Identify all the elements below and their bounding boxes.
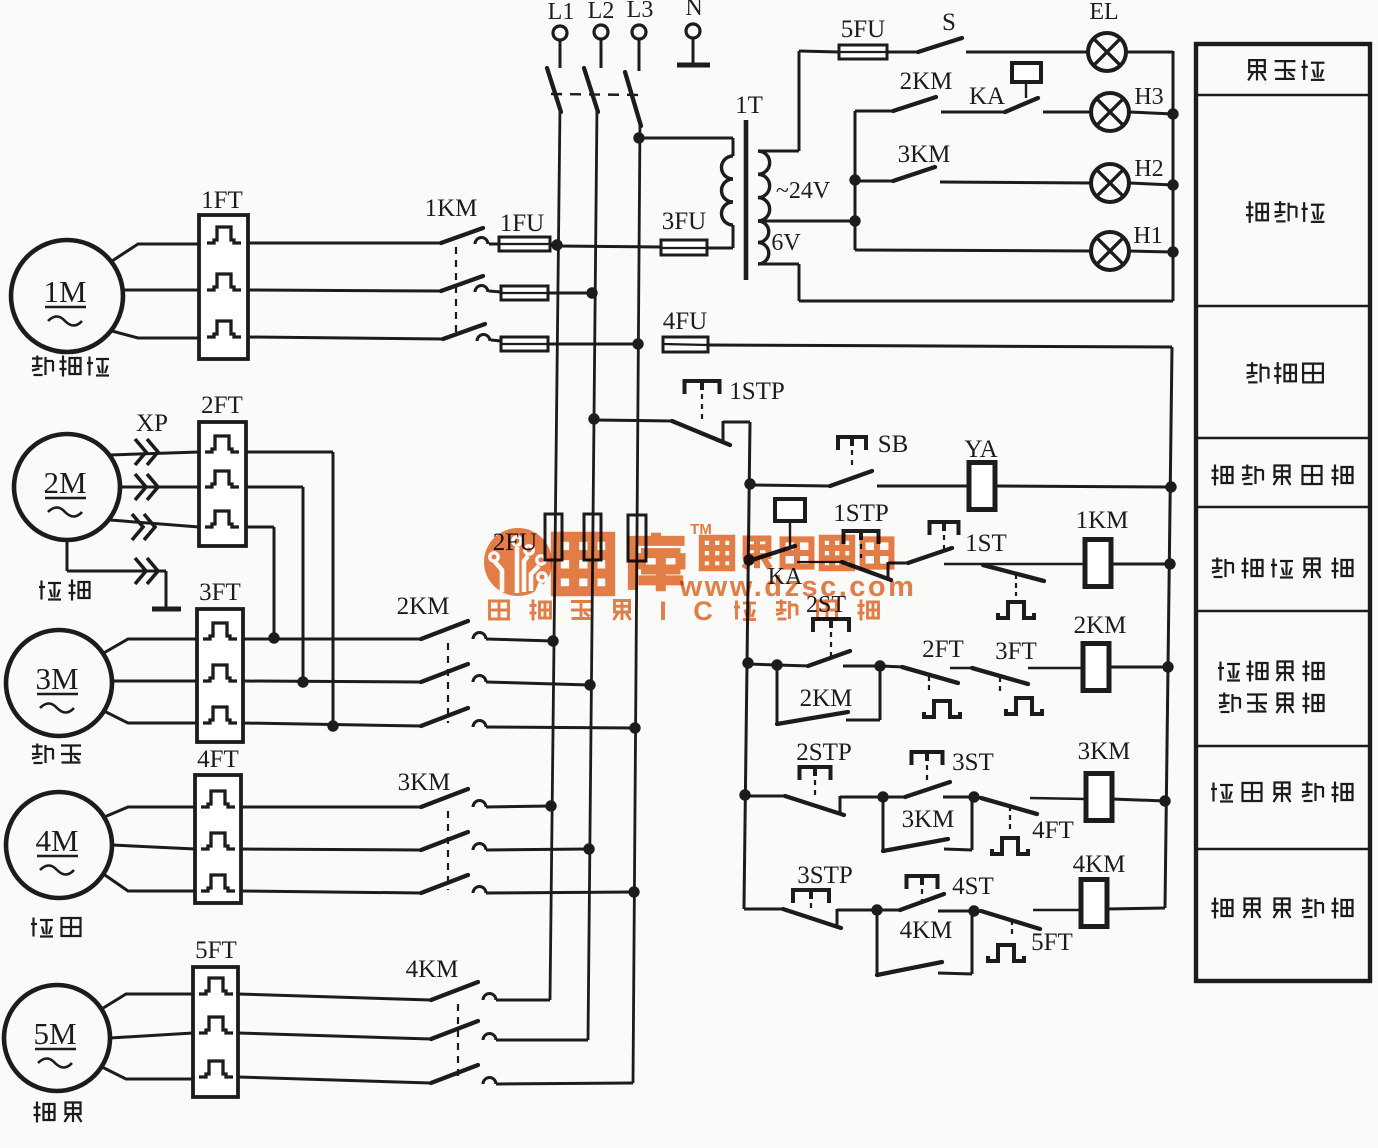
legend 推料电磁铁 (1212, 465, 1353, 486)
coil 4KM (1073, 851, 1165, 927)
svg-text:1T: 1T (735, 92, 763, 119)
node 1KM right (1164, 558, 1175, 569)
motor 2M (14, 434, 120, 540)
transformer 1T (722, 92, 770, 280)
wire bus L3 to transformer primary top (639, 138, 733, 156)
svg-text:4FT: 4FT (1032, 817, 1074, 844)
coil 3KM (1078, 738, 1165, 821)
node 2KM L1 (547, 635, 558, 646)
wire (748, 664, 777, 665)
lamp H3 (1091, 84, 1173, 131)
wire secondary bottom tap (758, 264, 1173, 301)
wire 3FU to transformer primary (707, 225, 733, 248)
label 冷却 (39, 580, 90, 601)
svg-text:~24V: ~24V (776, 178, 831, 204)
watermark www.dzsc.com (679, 571, 917, 603)
node 4KM branch left (871, 904, 882, 915)
node 2KM right (1162, 661, 1173, 672)
svg-text:L1: L1 (548, 0, 575, 25)
thermal relay 5FT (193, 937, 238, 1097)
wires 3FT to 2KM (243, 639, 421, 726)
motor 5M (4, 985, 110, 1091)
start button 1ST (908, 522, 1086, 564)
svg-text:C: C (693, 596, 713, 626)
node YA right (1165, 481, 1176, 492)
svg-text:2FT: 2FT (922, 636, 964, 663)
motor 4M (6, 792, 112, 898)
svg-text:4KM: 4KM (1073, 851, 1126, 878)
label 液压 (31, 918, 81, 937)
lamp H1 (1091, 223, 1173, 270)
svg-text:H1: H1 (1133, 223, 1162, 249)
fuse 3FU (661, 208, 707, 255)
wires 1FT to 1KM (248, 243, 443, 339)
legend 指示灯 (1246, 201, 1324, 223)
watermark 维库 (556, 521, 712, 591)
auxiliary contact 1KM (self hold) (983, 565, 1044, 618)
stop button 2STP (745, 739, 883, 815)
thermal relay 1FT (199, 187, 252, 359)
svg-text:3FU: 3FU (662, 208, 706, 235)
svg-text:XP: XP (136, 410, 168, 437)
thermal relay 4FT (195, 746, 241, 903)
thermal contact 2FT (880, 636, 974, 717)
knife switch linkage (dashed) (551, 94, 641, 95)
svg-text:4ST: 4ST (952, 873, 994, 900)
start button 4ST (877, 873, 994, 911)
node 4KM branch right (968, 905, 979, 916)
svg-text:2FT: 2FT (201, 392, 243, 419)
svg-text:www.dzsc.com: www.dzsc.com (679, 571, 917, 603)
supply terminal L3 (627, 0, 654, 71)
relay contact KA (lamp H3) (969, 63, 1091, 112)
thermal contact 5FT (974, 910, 1081, 961)
svg-text:4KM: 4KM (406, 956, 459, 983)
legend 润滑电机 (1219, 693, 1324, 714)
wires 5FT to 4KM (238, 994, 431, 1083)
thermal relay 3FT (197, 579, 243, 742)
svg-text:2KM: 2KM (397, 593, 450, 620)
coil YA (964, 436, 1171, 510)
svg-text:5FT: 5FT (1031, 929, 1073, 956)
node 2M/3M row2 (297, 676, 308, 687)
wires 3M to 3FT (102, 639, 197, 723)
svg-text:4FU: 4FU (663, 308, 707, 335)
node rail 1KM rung (743, 554, 754, 565)
svg-text:5M: 5M (33, 1016, 76, 1051)
wires 5M to 5FT (100, 994, 193, 1079)
contact 2KM (lamp H3) (855, 68, 1005, 112)
wire H1 row (855, 250, 1091, 251)
svg-text:3KM: 3KM (898, 141, 951, 168)
contactor 2KM main contacts (397, 593, 635, 728)
fuse 2FU (three vertical) (493, 514, 646, 561)
svg-text:6V: 6V (771, 230, 801, 256)
wires 2FT to droppers (246, 452, 333, 727)
legend 导轮电动机 (1212, 898, 1353, 919)
svg-text:3M: 3M (35, 661, 78, 696)
svg-text:1FU: 1FU (500, 210, 544, 237)
node H3 right (1167, 108, 1178, 119)
fuse 5FU (839, 16, 918, 59)
svg-text:SB: SB (878, 431, 909, 458)
lamp EL (1088, 0, 1173, 71)
svg-text:3STP: 3STP (797, 862, 853, 889)
node lamp rail mid tap (849, 215, 860, 226)
node 2KM branch right (874, 660, 885, 671)
node 2KM L3 (629, 722, 640, 733)
main knife switch QS blades (547, 68, 641, 126)
node rail 3KM rung (739, 789, 750, 800)
svg-text:L2: L2 (588, 0, 615, 24)
switch S (918, 9, 1088, 52)
node bus L2 / control feed (588, 413, 599, 424)
legend 冷却电机 (1218, 661, 1324, 682)
svg-text:EL: EL (1089, 0, 1118, 25)
neutral terminal N with earth (677, 0, 710, 65)
wire 4FU to right rail (708, 345, 1172, 347)
motor 1M (11, 240, 123, 352)
start button SB (750, 431, 969, 486)
node 3KM branch left (877, 791, 888, 802)
lamp circuit left rail (854, 111, 857, 250)
contactor 1KM main contacts (425, 195, 501, 341)
node 3KM right (1159, 795, 1170, 806)
label 导轮 (34, 1102, 82, 1123)
watermark 电子市场网 (702, 538, 892, 568)
stop button 1STP (rung 1KM) (833, 500, 908, 580)
node H2 right (1167, 179, 1178, 190)
svg-text:H3: H3 (1134, 84, 1163, 110)
svg-text:KA: KA (969, 83, 1005, 110)
bus L2 (588, 106, 597, 1040)
label 磨削轮 (32, 356, 109, 377)
svg-text:1FT: 1FT (201, 187, 243, 214)
wire secondary top tap riser (758, 51, 799, 151)
fuse 4FU (663, 308, 708, 352)
control right rail (1165, 347, 1172, 908)
svg-text:1STP: 1STP (833, 500, 889, 527)
thermal contact 3FT (972, 638, 1084, 714)
svg-text:3ST: 3ST (952, 749, 994, 776)
node bus L2 / 1FU (586, 287, 597, 298)
legend 熔断器 (1247, 362, 1323, 384)
svg-text:1KM: 1KM (425, 195, 478, 222)
svg-text:1M: 1M (43, 274, 86, 309)
wire bus L1 to 3FU (557, 246, 661, 247)
label 润滑 (32, 744, 81, 764)
bus L3 (633, 120, 640, 1083)
svg-text:2KM: 2KM (800, 685, 853, 712)
supply terminal L2 (588, 0, 615, 68)
wire control feed (594, 420, 672, 421)
node bus L3 / 1FU / 4FU (632, 338, 643, 349)
wires 4FT to 3KM (241, 807, 421, 893)
svg-text:3FT: 3FT (995, 638, 1037, 665)
contactor 3KM main contacts (398, 769, 634, 893)
lamp circuit right rail (1172, 51, 1175, 301)
svg-text:N: N (685, 0, 702, 21)
svg-text:1STP: 1STP (729, 378, 785, 405)
svg-text:H2: H2 (1134, 156, 1163, 182)
svg-text:2M: 2M (43, 465, 86, 500)
coil 1KM (1076, 507, 1170, 587)
bus L1 (550, 106, 560, 1000)
node rail 2KM rung (742, 657, 753, 668)
start button 3ST (883, 749, 994, 797)
relay contact KA (control) (752, 499, 842, 590)
svg-text:2KM: 2KM (900, 68, 953, 95)
svg-text:I: I (659, 596, 667, 626)
svg-text:L3: L3 (627, 0, 654, 23)
svg-text:1KM: 1KM (1076, 507, 1129, 534)
node bus L3 / primary (633, 132, 644, 143)
wire secondary mid tap (758, 220, 855, 223)
control left rail (744, 422, 750, 906)
legend table frame (1196, 44, 1370, 981)
node 2KM branch left (771, 659, 782, 670)
node 3KM branch right (968, 791, 979, 802)
motor 3M (6, 630, 112, 736)
stop button 3STP (744, 862, 877, 928)
svg-text:3FT: 3FT (199, 579, 241, 606)
svg-text:3KM: 3KM (398, 769, 451, 796)
wires 2M to 2FT (110, 452, 199, 527)
svg-text:2STP: 2STP (796, 739, 852, 766)
coil 2KM (1074, 612, 1168, 691)
node 2M/3M row1 (268, 632, 279, 643)
fuse 1FU (three) (499, 210, 638, 351)
svg-text:4M: 4M (35, 823, 78, 858)
node rail YA (744, 478, 755, 489)
svg-text:3KM: 3KM (902, 806, 955, 833)
supply terminal L1 (548, 0, 575, 68)
legend 照明灯 (1248, 60, 1324, 80)
svg-text:3KM: 3KM (1078, 738, 1131, 765)
node 3KM L3 (628, 886, 639, 897)
node 3KM L1 (545, 800, 556, 811)
watermark 全球最大IC采购网站 (490, 596, 879, 626)
auxiliary contact 2KM loop (777, 665, 880, 724)
stop button 1STP (feed line) (672, 378, 785, 445)
watermark logo (484, 528, 552, 596)
svg-text:5FT: 5FT (195, 937, 237, 964)
auxiliary contact 3KM loop (883, 797, 972, 851)
cooling earth branch (67, 541, 181, 609)
node 2M/3M row3 (327, 720, 338, 731)
node H1 right (1167, 246, 1178, 257)
node lamp rail 3KM (849, 174, 860, 185)
svg-text:4KM: 4KM (900, 917, 953, 944)
legend 液压电动机 (1211, 782, 1353, 803)
node 2KM L2 (584, 679, 595, 690)
svg-text:S: S (942, 9, 956, 36)
contact 3KM (lamp H2) (855, 141, 1091, 183)
lamp H2 (1091, 156, 1173, 202)
thermal relay 2FT (199, 392, 246, 546)
svg-text:4FT: 4FT (197, 746, 239, 773)
wire 1M to 1FT (112, 244, 199, 338)
node 3KM L2 (583, 843, 594, 854)
plug XP (132, 410, 168, 540)
svg-text:2KM: 2KM (1074, 612, 1127, 639)
thermal contact 4FT (974, 797, 1086, 854)
svg-text:YA: YA (964, 436, 997, 463)
node bus L1 / 1FU (551, 239, 562, 250)
start button 2ST (777, 592, 880, 666)
auxiliary contact 4KM loop (877, 910, 972, 975)
wires 4M to 4FT (102, 807, 195, 891)
legend 磨削轮电机 (1212, 558, 1353, 579)
svg-text:5FU: 5FU (841, 16, 885, 43)
svg-text:1ST: 1ST (965, 530, 1007, 557)
wire lamp top rail (799, 51, 839, 52)
contactor 4KM main contacts (406, 956, 633, 1084)
